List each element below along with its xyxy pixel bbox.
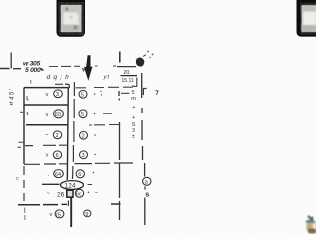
stray mark right of bracket xyxy=(156,91,159,96)
road name rotated xyxy=(131,84,136,140)
faint tick under 5000 xyxy=(30,80,32,84)
left margin ticks xyxy=(18,142,25,147)
bottom boundary line dashed xyxy=(18,203,121,206)
road east dashed line xyxy=(142,73,145,225)
dash above block corner xyxy=(55,83,63,85)
small marks under rotated label xyxy=(10,102,13,105)
north arrow xyxy=(84,55,93,81)
parcel row line y105 xyxy=(24,104,68,106)
block number ellipse 124 xyxy=(61,181,84,190)
marks under cluster xyxy=(121,87,137,94)
corner hook mark above block xyxy=(65,84,70,88)
short stub west of street xyxy=(67,201,69,207)
ink blob xyxy=(136,58,144,67)
connector y124 xyxy=(89,124,120,127)
street stub below square xyxy=(70,197,72,227)
parcel block outline xyxy=(24,88,68,201)
baseline with tick top-left xyxy=(0,53,21,69)
line y66.5 xyxy=(117,66,136,68)
parcel row line y125 xyxy=(26,124,68,126)
star mark left of d q h xyxy=(41,68,44,71)
lot row5 right: circle 6 xyxy=(76,170,84,178)
lot row4 right: circle 3 xyxy=(80,151,88,159)
east parcel line x119.5 xyxy=(118,91,121,220)
colour thumbnail bottom right xyxy=(306,215,318,234)
parcel row line y145 dashed xyxy=(25,144,68,146)
smudge left of arrow head xyxy=(82,68,86,73)
top boundary dashes east of block xyxy=(76,86,134,89)
tick x120 xyxy=(119,52,121,63)
lot row3 right: circle 2 xyxy=(80,131,88,139)
dash before lot ellipse xyxy=(42,183,60,185)
dash after lot ellipse xyxy=(88,184,93,186)
lot circle 6c xyxy=(75,189,83,197)
short vertical below fraction xyxy=(136,78,138,88)
circled a on road xyxy=(143,177,151,185)
dots top right xyxy=(147,51,149,53)
film sprocket hole left xyxy=(57,0,86,37)
lot row1 left: tick, v, circle 3 xyxy=(27,96,29,100)
parcel row line y164 dashed xyxy=(24,163,133,164)
film sprocket hole right xyxy=(297,0,320,37)
dashed survey line y66 xyxy=(49,65,98,68)
lot row2 right: circle 5 xyxy=(79,110,87,118)
street east line xyxy=(73,82,75,179)
lot row1 right: circle 5 xyxy=(79,90,87,98)
monument square xyxy=(67,190,73,197)
faint stub of west line below boundary xyxy=(24,208,26,221)
